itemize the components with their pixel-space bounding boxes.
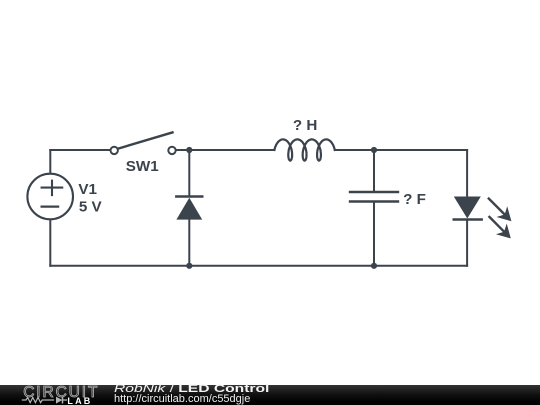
svg-text:SW1: SW1: [126, 158, 159, 175]
svg-text:LAB: LAB: [67, 395, 92, 405]
svg-text:5 V: 5 V: [79, 199, 103, 216]
svg-text:V1: V1: [78, 181, 97, 198]
svg-text:? H: ? H: [293, 117, 317, 134]
svg-text:? F: ? F: [403, 191, 426, 208]
